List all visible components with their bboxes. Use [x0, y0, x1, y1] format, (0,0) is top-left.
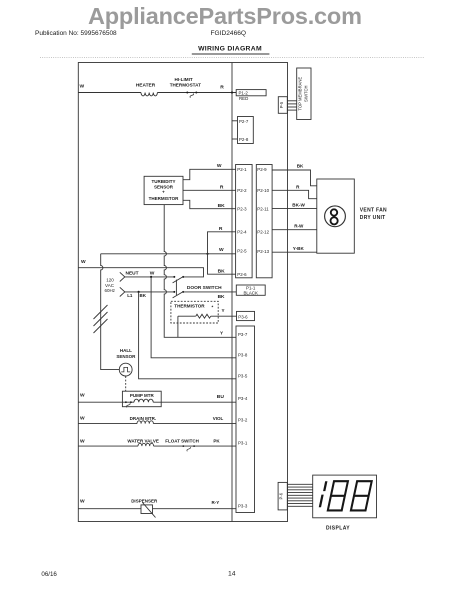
svg-text:THERMISTOR: THERMISTOR [174, 303, 205, 308]
wire branch to P2-6 [208, 254, 236, 274]
connector P3-7..P3-3 box [236, 326, 255, 513]
wire hall sensor riser with hop [101, 254, 120, 370]
wire L1 black [125, 291, 175, 293]
thermistor resistor [178, 315, 196, 317]
svg-text:HI-LIMIT: HI-LIMIT [175, 77, 193, 82]
door switch pole 1 [173, 276, 175, 278]
svg-text:P-5: P-5 [279, 101, 284, 108]
dispenser actuator [141, 505, 153, 514]
svg-text:P3-6: P3-6 [238, 314, 248, 319]
svg-text:VAC: VAC [105, 283, 115, 288]
svg-text:FGID2466Q: FGID2466Q [211, 30, 247, 37]
svg-text:L1: L1 [127, 293, 133, 298]
svg-text:P2-11: P2-11 [257, 207, 269, 212]
svg-text:W: W [80, 84, 85, 90]
door switch pole 2 [173, 291, 175, 293]
svg-text:SENSOR: SENSOR [116, 354, 136, 359]
svg-text:W: W [150, 271, 155, 277]
svg-text:BK: BK [218, 294, 225, 300]
wire heater white [78, 92, 141, 94]
heater element coil [141, 93, 157, 96]
turbidity sensor box [144, 176, 183, 204]
connector P1-2 RED [236, 90, 266, 96]
svg-text:DISPENSER: DISPENSER [131, 498, 158, 503]
svg-text:W: W [219, 247, 224, 253]
svg-text:WATER VALVE: WATER VALVE [127, 438, 159, 443]
wire drain white [78, 423, 137, 425]
svg-text:R: R [220, 185, 224, 191]
svg-text:120: 120 [106, 277, 114, 282]
wire dispenser white [78, 508, 236, 510]
svg-text:R: R [296, 185, 300, 190]
junction L1 to P3-5 branch [138, 291, 140, 293]
cabinet outline box [78, 63, 287, 522]
pin stub P2-8 [232, 138, 238, 140]
svg-text:R-W: R-W [294, 224, 304, 229]
pump motor winding [134, 399, 153, 402]
svg-text:P3-7: P3-7 [238, 332, 248, 337]
svg-text:60Hz: 60Hz [105, 288, 116, 293]
connector P2-1..P2-6 box [236, 165, 253, 278]
svg-text:THERMISTOR: THERMISTOR [149, 196, 179, 201]
hi-limit thermostat contacts [186, 92, 188, 94]
wire neutral [125, 276, 175, 278]
svg-text:SWITCH: SWITCH [303, 85, 308, 102]
wire pump white [78, 401, 134, 403]
fan motor circle [325, 206, 346, 227]
svg-text:AppliancePartsPros.com: AppliancePartsPros.com [88, 3, 362, 29]
pump thermal protector [125, 401, 127, 403]
thermistor dashed box [171, 301, 218, 323]
wires P-6 to display [287, 483, 312, 485]
water valve winding [138, 443, 154, 446]
svg-text:P2-10: P2-10 [257, 188, 269, 193]
svg-text:BU: BU [217, 394, 225, 400]
svg-text:TURBIDITY: TURBIDITY [152, 179, 176, 184]
wire R-W to vent fan [272, 229, 317, 231]
connector P3-6 [237, 311, 255, 320]
wire turbidity R to P2-2 [183, 189, 236, 191]
svg-text:P2-9: P2-9 [257, 167, 267, 172]
svg-text:TOP MEMBRANE: TOP MEMBRANE [298, 77, 303, 111]
wire turbidity W to P2-1 [183, 169, 236, 179]
svg-text:P3-8: P3-8 [238, 352, 248, 357]
svg-text:P2-3: P2-3 [237, 207, 247, 212]
svg-text:+: + [162, 190, 165, 195]
connector P1-1 BLACK [236, 285, 265, 295]
wire BK to vent fan [272, 170, 317, 186]
svg-text:BK-W: BK-W [292, 203, 305, 208]
svg-text:DISPLAY: DISPLAY [326, 526, 350, 532]
wire turbidity BK to P2-3 [183, 200, 236, 208]
svg-text:R-Y: R-Y [212, 500, 220, 505]
pin stub P2-7 [232, 120, 238, 122]
connector P-6 [278, 482, 287, 510]
svg-text:P-6: P-6 [279, 492, 284, 499]
wire pump BU to P3-4 [153, 401, 236, 403]
svg-text:BK: BK [140, 293, 147, 298]
svg-text:W: W [80, 499, 85, 505]
fan motor figure-8 [331, 209, 337, 215]
junction dot at board edge [231, 91, 233, 93]
svg-text:PK: PK [213, 438, 220, 443]
svg-text:Publication No: 5995676508: Publication No: 5995676508 [35, 30, 117, 37]
svg-text:R: R [220, 85, 224, 91]
svg-text:W: W [80, 393, 85, 399]
svg-text:W: W [80, 416, 85, 422]
svg-text:P2-5: P2-5 [237, 248, 247, 253]
seven segment digits 188 [319, 481, 372, 510]
svg-text:P3-2: P3-2 [238, 417, 248, 422]
drain motor winding [137, 421, 153, 424]
svg-text:P2-8: P2-8 [239, 137, 249, 142]
cable twist marks [94, 305, 108, 319]
svg-text:HALL: HALL [120, 348, 132, 353]
svg-text:P2-6: P2-6 [237, 272, 247, 277]
svg-text:R: R [219, 226, 223, 232]
title underline [192, 53, 270, 55]
svg-text:SENSOR: SENSOR [154, 184, 174, 189]
wire Y-BK to vent fan [272, 251, 317, 253]
wire B white to door switch [78, 268, 203, 277]
control board divider line [231, 63, 233, 522]
svg-text:W: W [217, 163, 222, 169]
wire water valve white [78, 445, 138, 447]
svg-text:14: 14 [228, 571, 236, 578]
svg-text:NEUT: NEUT [126, 271, 139, 277]
svg-text:WIRING DIAGRAM: WIRING DIAGRAM [198, 46, 262, 53]
svg-text:P3-4: P3-4 [238, 396, 248, 401]
wire water valve to float switch [154, 445, 236, 447]
svg-text:BK: BK [297, 163, 304, 168]
svg-text:FLOAT SWITCH: FLOAT SWITCH [165, 438, 199, 443]
svg-text:P2-12: P2-12 [257, 229, 269, 234]
line L1 chevron [120, 287, 125, 296]
svg-text:HEATER: HEATER [136, 82, 156, 88]
svg-text:BLACK: BLACK [243, 291, 257, 296]
svg-text:VIOL: VIOL [213, 416, 224, 421]
wire A to P2-5 [101, 253, 236, 255]
svg-text:P3-1: P3-1 [238, 440, 248, 445]
svg-text:THERMOSTAT: THERMOSTAT [170, 83, 201, 88]
connector P2-7 P2-8 box [238, 117, 254, 144]
svg-text:P2-2: P2-2 [237, 188, 247, 193]
svg-text:P3-5: P3-5 [238, 373, 248, 378]
display unit box [313, 475, 377, 518]
wire drain VIOL to P3-2 [153, 423, 236, 425]
pump motor box [122, 391, 161, 407]
svg-text:DOOR SWITCH: DOOR SWITCH [187, 285, 222, 291]
svg-text:BK: BK [218, 268, 226, 274]
wire door switch to P1-1 [183, 291, 236, 293]
svg-text:P2-7: P2-7 [239, 119, 249, 124]
svg-text:PUMP MTR: PUMP MTR [130, 393, 155, 398]
svg-text:W: W [81, 259, 86, 265]
svg-text:P2-4: P2-4 [237, 229, 247, 234]
thermistor left lead down [177, 316, 179, 337]
junction node on wire A [206, 253, 208, 255]
svg-text:06/16: 06/16 [41, 571, 57, 578]
vent fan dry unit box [317, 179, 355, 253]
top membrane switch box [297, 68, 311, 120]
hall sensor circle [119, 363, 132, 376]
wire R to vent fan [272, 190, 317, 198]
dotted header rule [40, 56, 425, 58]
svg-text:RED: RED [239, 96, 248, 101]
svg-text:VENT FAN: VENT FAN [360, 208, 387, 214]
svg-text:Y: Y [220, 331, 223, 336]
svg-text:*: * [212, 305, 214, 310]
wire BK-W to vent fan [272, 208, 317, 210]
svg-text:BK: BK [218, 203, 226, 209]
door switch link [175, 280, 177, 296]
wire heater to hi-limit [157, 92, 236, 94]
svg-text:Y-BK: Y-BK [293, 246, 305, 251]
svg-text:P2-1: P2-1 [237, 167, 247, 172]
wire turbidity sensor down lead with hops [164, 205, 236, 338]
svg-text:DRAIN MTR.: DRAIN MTR. [130, 416, 157, 421]
svg-text:W: W [80, 438, 85, 444]
svg-text:DRY UNIT: DRY UNIT [360, 215, 386, 221]
wire branch to P2-4 [208, 232, 236, 254]
wire L1 branch to P3-5 [139, 292, 236, 379]
svg-text:P2-13: P2-13 [257, 249, 269, 254]
neutral lead chevron [120, 272, 125, 281]
hall sensor dashed link [125, 376, 127, 391]
svg-text:P3-3: P3-3 [238, 503, 248, 508]
wires P-5 to membrane switch [287, 100, 296, 102]
connector P-5 [278, 97, 287, 114]
junction neutral to P3-8 branch [150, 276, 152, 278]
wire neutral branch to P3-8 [151, 277, 236, 358]
svg-text:Y: Y [222, 308, 225, 313]
connector P2-9..P2-13 box [256, 165, 272, 278]
float switch contacts [182, 445, 184, 447]
